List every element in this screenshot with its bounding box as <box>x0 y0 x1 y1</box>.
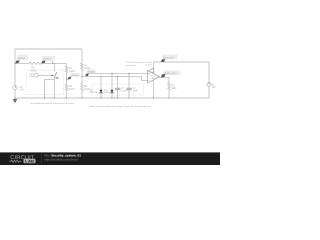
node label L5 <box>161 55 178 62</box>
wire opamp vplus <box>153 62 155 74</box>
resistor R4 <box>81 63 83 70</box>
svg-text:or this1: or this1 <box>145 64 152 67</box>
value label C1 <box>121 87 127 92</box>
value label D1 <box>89 89 98 94</box>
wire switch common <box>53 78 55 98</box>
wire R2 R3 vertical <box>66 63 68 98</box>
wire column C1 <box>117 76 119 98</box>
svg-text:600Ω: 600Ω <box>84 67 90 70</box>
svg-text:NodeB: NodeB <box>72 74 79 77</box>
value label R2 <box>69 67 76 73</box>
svg-text:LAB: LAB <box>25 159 34 163</box>
svg-text:1N4448: 1N4448 <box>89 91 98 94</box>
value label R4 <box>84 64 90 70</box>
dashed box protection <box>92 84 144 95</box>
relay lever <box>54 72 57 78</box>
svg-text:1N4448: 1N4448 <box>104 91 113 94</box>
svg-text:Node1: Node1 <box>18 57 26 60</box>
resistor R3 <box>65 84 67 91</box>
svg-text:10nF: 10nF <box>133 89 139 92</box>
svg-text:TLV2372 should work for this: TLV2372 should work for this <box>126 61 152 64</box>
wire top loop <box>15 48 82 50</box>
value label R1 <box>31 67 37 73</box>
capacitor C1 <box>115 88 121 90</box>
op-amp OA1 <box>148 71 160 84</box>
value label R6 <box>171 84 176 90</box>
wire y63 horizontal <box>15 62 67 64</box>
value label V2 <box>212 83 217 89</box>
node label L4 <box>85 70 95 77</box>
wire left vertical <box>14 49 16 98</box>
diode D2 <box>110 90 113 93</box>
svg-text:10nF: 10nF <box>121 89 127 92</box>
svg-text:Node_Out1: Node_Out1 <box>165 72 178 75</box>
relay contact bar <box>56 77 59 80</box>
svg-text:LM741: LM741 <box>151 77 158 80</box>
diode D1 <box>99 90 102 93</box>
footer bar <box>0 152 220 165</box>
resistor R6 <box>168 83 170 90</box>
wire node right top <box>154 61 210 63</box>
wire switch top stub <box>53 61 55 72</box>
value label SW1 <box>30 73 36 78</box>
node label L3 <box>67 73 80 79</box>
value label C2 <box>133 87 139 92</box>
svg-text:1MΩ: 1MΩ <box>171 87 176 90</box>
voltage source V2 <box>207 83 211 87</box>
wire input A <box>88 72 148 74</box>
svg-text:NodeC: NodeC <box>88 70 95 73</box>
svg-text:comparison: comparison <box>126 64 137 67</box>
node label L6 <box>161 71 180 78</box>
svg-text:Node_A: Node_A <box>44 58 53 61</box>
svg-text:We installed the magnetic swit: We installed the magnetic switch opening… <box>31 102 74 105</box>
svg-text:600Ω: 600Ω <box>31 69 37 72</box>
svg-text:12V: 12V <box>19 89 24 92</box>
resistor R2 <box>65 66 67 73</box>
wire relay NO <box>45 79 55 98</box>
resistor R5 <box>81 84 83 91</box>
wire column D2 <box>111 73 113 98</box>
wire bottom rail <box>15 97 209 99</box>
value label R3 <box>69 85 75 91</box>
svg-text:Diodes to protect against over: Diodes to protect against over voltage. … <box>89 105 151 108</box>
resistor R1 <box>29 62 41 64</box>
value label D2 <box>104 89 113 94</box>
note comparator <box>126 61 152 67</box>
relay coil SW1 <box>35 74 39 78</box>
svg-text:12V: 12V <box>212 86 217 89</box>
wire column D1 <box>100 76 102 98</box>
wire R4 branch vertical <box>81 49 83 98</box>
node label L2 <box>41 56 55 63</box>
svg-text:http://circuitlab.com/c9chq7: http://circuitlab.com/c9chq7 <box>45 157 79 161</box>
wire V2 vertical <box>208 62 210 98</box>
dashed box relay <box>27 70 64 95</box>
wire input B <box>82 76 148 80</box>
svg-text:1.5kΩ: 1.5kΩ <box>69 70 76 73</box>
wire opamp output <box>160 77 170 98</box>
capacitor C2 <box>126 88 132 90</box>
svg-text:Node_NC: Node_NC <box>163 56 174 59</box>
relay actuator arrow <box>52 75 54 77</box>
junction dots <box>14 63 169 99</box>
wire relay coil <box>38 74 52 76</box>
logo resistor <box>9 160 22 162</box>
voltage source V1 <box>13 85 17 89</box>
value label R5 <box>84 85 90 91</box>
node label L1 <box>15 55 27 63</box>
net flag pennant <box>148 68 153 73</box>
svg-text:500Ω: 500Ω <box>69 88 75 91</box>
ground <box>13 98 17 103</box>
wire column C2 <box>128 73 130 98</box>
logo LAB box <box>24 159 36 164</box>
value label V1 <box>19 86 24 92</box>
footer divider <box>41 154 43 164</box>
wire opamp vminus <box>152 80 154 98</box>
